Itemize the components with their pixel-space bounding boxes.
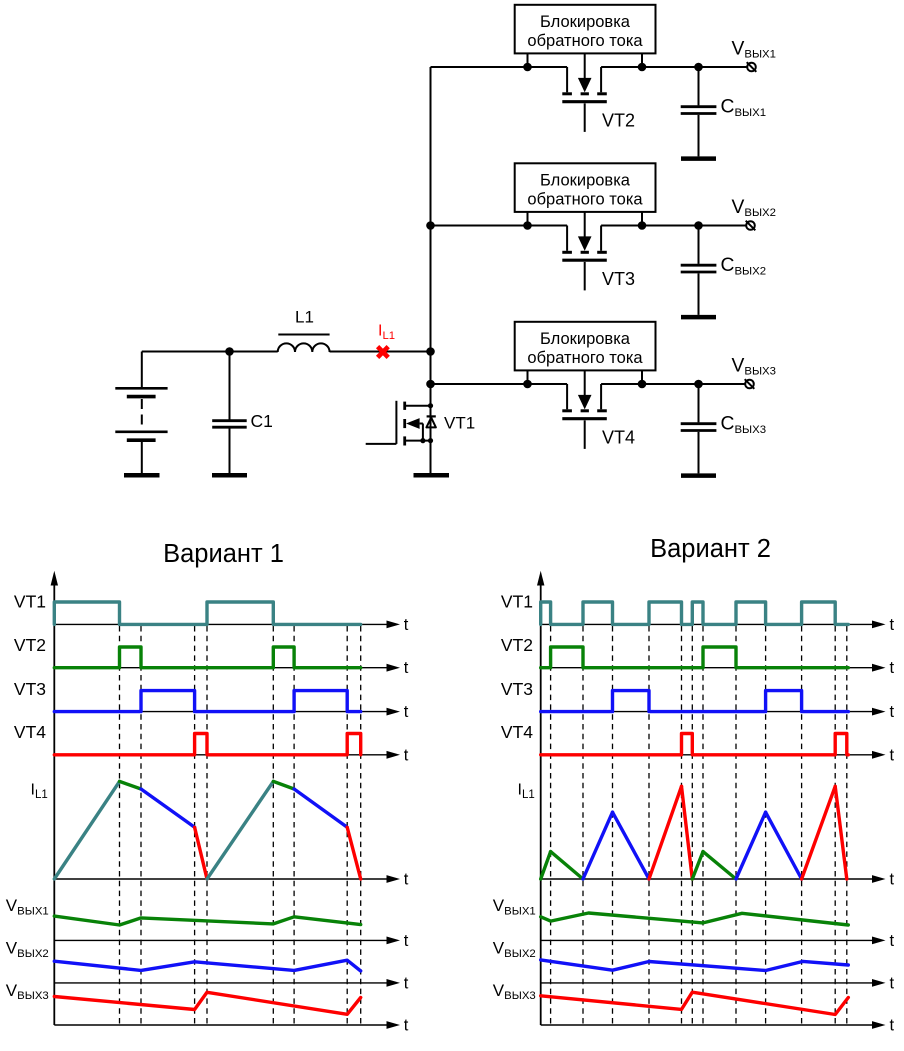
svg-text:обратного тока: обратного тока [527,190,643,208]
waveform VВЫХ1 (panel 2) [541,913,849,925]
label CВЫХ1 [721,97,767,119]
label VВЫХ1 [732,38,777,60]
terminal VВЫХ2 [746,221,756,231]
time axis v1 (panel 1) [54,932,409,950]
svg-text:VT4: VT4 [501,722,533,742]
svg-text:t: t [890,871,895,889]
label L1 [295,308,314,327]
svg-text:VВЫХ1: VВЫХ1 [493,896,536,917]
transistor VT4 [562,370,607,449]
svg-text:VВЫХ2: VВЫХ2 [732,197,777,219]
title Вариант 1 (panel 1) [163,540,284,568]
time axis vt4 (panel 2) [541,746,895,764]
svg-text:t: t [404,974,409,992]
svg-text:t: t [404,871,409,889]
ground (CВЫХ3) [681,473,716,478]
svg-text:t: t [404,703,409,721]
time axis v2 (panel 2) [541,974,895,992]
svg-text:VT1: VT1 [501,592,533,612]
label VВЫХ3 [732,355,777,377]
battery GB1 [115,352,167,474]
terminal VВЫХ3 [745,379,755,389]
block reverse-current-blocking U2 [515,5,656,54]
svg-text:CВЫХ2: CВЫХ2 [721,255,767,277]
svg-text:VВЫХ1: VВЫХ1 [732,38,777,60]
capacitor CВЫХ1 [681,63,717,157]
svg-text:CВЫХ1: CВЫХ1 [721,97,767,119]
label VT4 (panel 1) [14,722,46,742]
label VT2 [602,111,635,131]
svg-text:t: t [890,974,895,992]
svg-text:t: t [890,703,895,721]
label VВЫХ3 (panel 2) [493,981,536,1002]
waveform VT4 (panel 2) [541,734,849,755]
label VT2 (panel 1) [14,635,46,655]
svg-text:VВЫХ3: VВЫХ3 [6,981,49,1002]
label VT4 (panel 2) [501,722,533,742]
waveform VВЫХ3 (panel 1) [54,992,360,1014]
ground (C1) [212,473,247,478]
wire row1 right segment [601,67,748,92]
wire row3 right segment [601,384,746,409]
time axis v1 (panel 2) [541,932,895,950]
ground (battery) [124,473,160,478]
vertical axis (panel 2) [537,571,544,1025]
waveform VT3 (panel 1) [54,691,360,712]
waveform VT2 (panel 1) [54,647,360,668]
label VT4 [602,428,635,448]
capacitor C1 [212,352,247,474]
time axis vt4 (panel 1) [54,746,409,764]
svg-text:t: t [404,659,409,677]
svg-text:IL1: IL1 [31,782,48,801]
svg-text:t: t [890,746,895,764]
waveform IL1 (panel 1) [54,781,360,879]
wire battery to node A [142,351,278,353]
junction box3 left lead [523,370,532,388]
label VT3 [602,269,635,289]
time axis v3 (panel 1) [54,1017,409,1035]
junction box1 right lead [638,53,647,71]
junction box3 right lead [638,370,647,388]
ground (CВЫХ1) [681,156,716,161]
time axis il (panel 2) [541,871,895,889]
label VT3 (panel 1) [14,679,46,699]
label VВЫХ2 (panel 2) [493,939,536,960]
junction node A (C1 tap) [225,347,234,356]
svg-text:VВЫХ3: VВЫХ3 [732,355,777,377]
label CВЫХ2 [721,255,767,277]
svg-text:VВЫХ1: VВЫХ1 [6,896,49,917]
svg-text:VT2: VT2 [501,635,533,655]
svg-text:VT4: VT4 [14,722,46,742]
svg-text:VT2: VT2 [602,111,635,131]
ground (CВЫХ2) [681,315,716,320]
vertical axis (panel 1) [51,571,58,1025]
junction row3 bus [426,380,435,389]
dashed gridlines (panel 2) [551,626,847,1025]
svg-text:VВЫХ2: VВЫХ2 [6,939,49,960]
svg-text:VT3: VT3 [501,679,533,699]
junction box2 right lead [638,212,647,230]
label VT1 [444,414,475,433]
transistor VT3 [562,212,607,291]
svg-text:обратного тока: обратного тока [527,32,643,50]
svg-text:VT1: VT1 [444,414,475,433]
capacitor CВЫХ3 [681,380,717,474]
wire row2 right segment [601,226,747,251]
label IL1 [378,323,395,342]
svg-text:C1: C1 [251,411,273,431]
svg-text:VT2: VT2 [14,635,46,655]
svg-text:t: t [890,932,895,950]
waveform VT1 (panel 1) [54,602,360,624]
wire main switch bus [430,67,432,473]
dashed gridlines (panel 1) [120,626,361,1025]
svg-text:L1: L1 [295,308,314,327]
terminal VВЫХ1 [747,62,757,72]
capacitor CВЫХ2 [681,221,717,315]
current probe marker IL1 [378,347,389,358]
time axis v3 (panel 2) [541,1017,895,1035]
title Вариант 2 (panel 2) [650,535,771,563]
svg-text:t: t [890,616,895,634]
svg-text:IL1: IL1 [378,323,395,342]
svg-text:Блокировка: Блокировка [540,330,631,348]
time axis vt3 (panel 2) [541,703,895,721]
wire row2 left segment [431,226,568,251]
svg-text:t: t [890,659,895,677]
waveform VВЫХ2 (panel 1) [54,960,360,971]
label IL1 (panel 1) [31,782,48,801]
waveform VT4 (panel 1) [54,734,360,755]
svg-text:VT4: VT4 [602,428,635,448]
waveform VT2 (panel 2) [541,647,849,668]
block reverse-current-blocking U3 [515,163,656,212]
label VT1 (panel 2) [501,592,533,612]
svg-text:IL1: IL1 [518,782,535,801]
label VВЫХ2 (panel 1) [6,939,49,960]
wire L1 to switch node [330,351,431,353]
svg-text:VT1: VT1 [14,592,46,612]
transistor VT2 [562,53,607,131]
svg-text:CВЫХ3: CВЫХ3 [721,414,767,436]
junction switch-node/L1 [426,347,435,356]
svg-text:VВЫХ2: VВЫХ2 [493,939,536,960]
svg-text:Вариант 2: Вариант 2 [650,535,771,563]
time axis vt2 (panel 2) [541,659,895,677]
wire row3 left segment [431,384,568,409]
waveform VВЫХ2 (panel 2) [541,960,849,971]
label VВЫХ2 [732,197,777,219]
svg-text:t: t [890,1017,895,1035]
svg-text:t: t [404,616,409,634]
transistor VT1 [366,401,433,446]
svg-text:VT3: VT3 [602,269,635,289]
svg-text:t: t [404,932,409,950]
label VВЫХ3 (panel 1) [6,981,49,1002]
label VT3 (panel 2) [501,679,533,699]
svg-text:VT3: VT3 [14,679,46,699]
label VВЫХ1 (panel 1) [6,896,49,917]
junction box2 left lead [523,212,532,230]
svg-text:VВЫХ3: VВЫХ3 [493,981,536,1002]
junction box1 left lead [523,53,532,71]
label VВЫХ1 (panel 2) [493,896,536,917]
time axis vt1 (panel 2) [541,616,895,634]
waveform IL1 (panel 2) [541,786,847,879]
time axis vt3 (panel 1) [54,703,409,721]
label VT2 (panel 2) [501,635,533,655]
junction row2 bus [426,221,435,230]
time axis v2 (panel 1) [54,974,409,992]
waveform VT1 (panel 2) [541,602,849,624]
svg-text:Вариант 1: Вариант 1 [163,540,284,568]
label VT1 (panel 1) [14,592,46,612]
label IL1 (panel 2) [518,782,535,801]
wire row1 left segment [431,67,568,92]
inductor L1 [278,335,330,353]
svg-text:Блокировка: Блокировка [540,171,631,189]
waveform VT3 (panel 2) [541,691,849,712]
svg-text:t: t [404,746,409,764]
time axis il (panel 1) [54,871,409,889]
waveform VВЫХ1 (panel 1) [54,916,360,925]
time axis vt2 (panel 1) [54,659,409,677]
body diode VT1 [426,416,436,427]
svg-text:t: t [404,1017,409,1035]
waveform VВЫХ3 (panel 2) [541,992,849,1014]
time axis vt1 (panel 1) [54,616,409,634]
svg-text:обратного тока: обратного тока [527,349,643,367]
svg-text:Блокировка: Блокировка [540,13,631,31]
label C1 [251,411,273,431]
ground (VT1) [414,473,450,478]
block reverse-current-blocking U4 [515,322,656,371]
label CВЫХ3 [721,414,767,436]
